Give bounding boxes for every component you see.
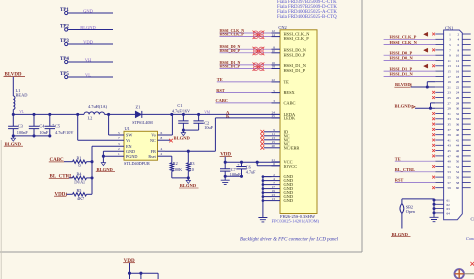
svg-text:U1: U1 xyxy=(125,126,130,131)
svg-text:40: 40 xyxy=(456,133,460,137)
node VL rail xyxy=(13,113,84,115)
U1 pin 8 NC stub no-connect xyxy=(158,139,171,141)
sheet section border vertical xyxy=(361,0,363,252)
wire VDD rail xyxy=(224,157,226,162)
svg-text:CABC: CABC xyxy=(50,158,65,163)
svg-text:33: 33 xyxy=(448,117,452,121)
sheet left border xyxy=(0,140,2,279)
common-mode filter (DNP) on HSSI_D1_N/HSSI_D1_P xyxy=(253,63,258,67)
wire TE xyxy=(217,81,272,83)
wire VM rail xyxy=(142,113,280,115)
wire R5 to EN xyxy=(87,193,93,195)
svg-text:42: 42 xyxy=(456,138,460,142)
CN2 pin 9 ID xyxy=(272,131,281,133)
CN2 pin 15 NC xyxy=(272,143,281,145)
wire BLGND xyxy=(415,107,435,109)
svg-text:6: 6 xyxy=(161,131,163,135)
wire HSSI_D0_N xyxy=(384,60,436,62)
svg-text:52: 52 xyxy=(456,165,460,169)
common-mode filter (DNP) on HSSI_CLK_N/HSSI_CLK_P xyxy=(253,31,258,35)
svg-text:BLGND: BLGND xyxy=(392,232,409,237)
svg-text:BLGND: BLGND xyxy=(395,103,412,108)
sheet section border horizontal xyxy=(0,251,362,253)
ground (VDD caps) xyxy=(224,176,226,180)
svg-text:C3: C3 xyxy=(18,124,23,129)
svg-text:57: 57 xyxy=(448,181,452,185)
svg-text:14: 14 xyxy=(456,64,460,68)
svg-text:4K7: 4K7 xyxy=(77,196,84,201)
svg-text:VDD: VDD xyxy=(83,39,93,44)
svg-text:HSSI_CLK_P: HSSI_CLK_P xyxy=(220,32,245,37)
CN2 pin 16 HSSI_D1_N xyxy=(272,64,281,66)
svg-text:2: 2 xyxy=(161,152,163,156)
svg-text:27: 27 xyxy=(448,101,452,105)
wire R1 to EN xyxy=(87,161,93,163)
svg-text:43: 43 xyxy=(448,144,452,148)
wire HSSI_D1_P xyxy=(384,70,436,72)
svg-text:HSSI_D0_P: HSSI_D0_P xyxy=(220,48,241,53)
solder bridge SB2 Open xyxy=(401,199,403,204)
wire HSSI_D1_N xyxy=(220,64,272,66)
wire to fiducial xyxy=(464,273,474,275)
wire R2 R3 ground join xyxy=(172,177,189,179)
svg-text:VH: VH xyxy=(85,57,92,62)
svg-text:55: 55 xyxy=(448,176,452,180)
svg-text:3: 3 xyxy=(118,142,120,146)
svg-text:RESX: RESX xyxy=(284,90,296,95)
wire BLVDD xyxy=(411,86,435,88)
svg-text:14: 14 xyxy=(272,33,276,37)
wire HSSI_CLK_N xyxy=(220,32,272,34)
svg-text:RST: RST xyxy=(216,88,225,93)
svg-text:49: 49 xyxy=(448,160,452,164)
svg-text:17: 17 xyxy=(448,75,452,79)
svg-text:TE: TE xyxy=(217,77,223,82)
wire cap ground rail xyxy=(13,135,50,137)
svg-text:4: 4 xyxy=(161,147,163,151)
U1 pin 6 Vo stub xyxy=(158,134,173,136)
wire HSSI_CLK_N xyxy=(384,44,436,46)
svg-text:Open: Open xyxy=(406,209,416,214)
CN2 pin 3 CABC xyxy=(272,102,281,104)
svg-text:0: 0 xyxy=(79,163,81,168)
svg-text:4.7uF/16V: 4.7uF/16V xyxy=(172,108,190,113)
svg-text:K: K xyxy=(226,114,230,119)
wire Vo to rail xyxy=(171,114,173,135)
svg-text:10: 10 xyxy=(190,167,194,172)
U1 pin 5 SW stub xyxy=(109,134,124,136)
svg-text:50: 50 xyxy=(456,160,460,164)
svg-text:12: 12 xyxy=(456,59,460,63)
wire BL_CTRL to R4 xyxy=(69,177,73,179)
wire HSSI_D1_P xyxy=(220,68,272,70)
svg-text:24: 24 xyxy=(456,91,460,95)
wire GND down to PGND xyxy=(102,151,104,162)
svg-text:4.7uH(1A): 4.7uH(1A) xyxy=(88,104,108,109)
svg-text:VM: VM xyxy=(204,111,211,115)
wire IOVCC branch xyxy=(256,162,258,166)
U1 pin 3 EN stub xyxy=(92,145,124,147)
svg-text:18: 18 xyxy=(272,65,276,69)
svg-text:29: 29 xyxy=(448,107,452,111)
svg-text:Z1: Z1 xyxy=(136,104,141,109)
svg-text:35: 35 xyxy=(448,123,452,127)
svg-text:15: 15 xyxy=(448,70,452,74)
svg-text:Conn: Conn xyxy=(466,236,474,241)
svg-text:22: 22 xyxy=(272,78,276,82)
svg-text:16: 16 xyxy=(456,70,460,74)
svg-text:VDD: VDD xyxy=(55,192,66,197)
wire HSSI_D0_P xyxy=(384,54,436,56)
capacitor C2 10uF xyxy=(198,114,200,121)
svg-text:23: 23 xyxy=(448,91,452,95)
U1 pin 2 Rset stub xyxy=(158,155,172,157)
CN1 pins 61-64 xyxy=(434,199,444,201)
CN2 pin 2 GND xyxy=(272,176,281,178)
svg-text:36: 36 xyxy=(456,123,460,127)
svg-text:TE: TE xyxy=(284,80,290,85)
svg-text:NC: NC xyxy=(150,138,156,143)
svg-text:60: 60 xyxy=(456,186,460,190)
svg-text:STPS1L40M: STPS1L40M xyxy=(132,121,153,125)
wire C6 C7 ground join xyxy=(225,175,241,177)
CN2 pin 13 NC xyxy=(272,139,281,141)
svg-text:TE: TE xyxy=(395,156,401,161)
svg-text:HSSI_D1_N: HSSI_D1_N xyxy=(390,72,414,77)
CN2 pin 20 NC/ERR xyxy=(272,147,281,149)
wire HSSI_D0_N xyxy=(220,48,272,50)
svg-text:R2: R2 xyxy=(173,161,178,166)
CN2 pin 22 TE xyxy=(272,81,281,83)
U1 pin 4 FB stub xyxy=(158,150,166,152)
svg-text:28: 28 xyxy=(456,101,460,105)
svg-text:BL_CTRL: BL_CTRL xyxy=(50,175,74,180)
wire K net vertical xyxy=(214,118,216,151)
svg-text:4.7uF: 4.7uF xyxy=(246,170,256,175)
svg-text:GND: GND xyxy=(83,8,93,13)
svg-text:C5: C5 xyxy=(55,124,60,129)
svg-text:30: 30 xyxy=(456,107,460,111)
svg-text:Backlight driver & FFC connect: Backlight driver & FFC connector for LCD… xyxy=(240,238,339,243)
svg-text:44: 44 xyxy=(456,144,460,148)
svg-text:38: 38 xyxy=(456,128,460,132)
svg-text:HSSI_D1_P: HSSI_D1_P xyxy=(284,68,306,73)
CN2 pin 23 GND xyxy=(272,196,281,198)
svg-text:10uF: 10uF xyxy=(204,125,213,130)
svg-text:IOVCC: IOVCC xyxy=(284,164,298,169)
svg-text:47: 47 xyxy=(448,154,452,158)
svg-text:54: 54 xyxy=(456,170,460,174)
wire BLVDD to L1 xyxy=(12,77,14,96)
capacitor C6 4.7uF xyxy=(241,162,243,166)
svg-text:21: 21 xyxy=(448,85,452,89)
ground flag BLGND (input caps) xyxy=(12,136,14,138)
wire SW to rail xyxy=(108,114,110,135)
capacitor C5 4.7uF/10V xyxy=(45,126,55,128)
capacitor C4 10nF xyxy=(29,126,39,128)
wire LEDK row xyxy=(215,117,280,119)
capacitor C3 100nF xyxy=(8,126,18,128)
CN2 pin 17 GND xyxy=(272,188,281,190)
svg-text:NC/ERR: NC/ERR xyxy=(284,145,300,150)
wire TE xyxy=(395,160,436,162)
svg-text:HSSI_D0_P: HSSI_D0_P xyxy=(284,52,306,57)
svg-text:13: 13 xyxy=(272,197,276,201)
wire C5 branch xyxy=(49,114,51,126)
svg-text:59: 59 xyxy=(448,186,452,190)
svg-text:Rset: Rset xyxy=(148,154,156,159)
wire HSSI_CLK_P xyxy=(384,38,436,40)
wire Rset to R2 xyxy=(171,156,173,163)
edge mark xyxy=(470,262,474,266)
svg-text:BLGND: BLGND xyxy=(80,25,96,30)
svg-text:100K: 100K xyxy=(173,167,182,172)
wire SB2 to BLGND xyxy=(401,214,403,229)
CN2 pin 24 LEDA xyxy=(272,113,281,115)
diff-pair marker xyxy=(424,48,428,52)
wire HSSI_D1_N xyxy=(384,75,436,77)
svg-text:HSSI_CLK_P: HSSI_CLK_P xyxy=(284,36,310,41)
svg-text:BLGND: BLGND xyxy=(5,141,22,146)
svg-text:BLGND: BLGND xyxy=(97,167,114,172)
svg-text:VL: VL xyxy=(19,110,24,114)
wire pins 61-64 bus xyxy=(433,199,435,213)
CN2 pin 14 HSSI_CLK_P xyxy=(272,36,281,38)
svg-text:20: 20 xyxy=(456,80,460,84)
svg-text:48: 48 xyxy=(456,154,460,158)
svg-text:32: 32 xyxy=(456,112,460,116)
svg-text:CABC: CABC xyxy=(284,101,296,106)
svg-text:25: 25 xyxy=(448,96,452,100)
wire RST xyxy=(216,92,271,94)
CN2 pin 21 VCC xyxy=(272,161,281,163)
svg-text:BL_CTRL: BL_CTRL xyxy=(395,167,415,172)
wire VDD bottom xyxy=(129,263,131,273)
svg-text:34: 34 xyxy=(456,117,460,121)
svg-text:19: 19 xyxy=(448,80,452,84)
svg-text:BLGND: BLGND xyxy=(174,135,191,140)
CN2 pin 19 GND xyxy=(272,192,281,194)
svg-text:[N/A]: [N/A] xyxy=(75,180,86,185)
wire FB net xyxy=(165,150,215,152)
svg-text:58: 58 xyxy=(456,181,460,185)
wire BL_CTRL xyxy=(395,171,436,173)
svg-text:5: 5 xyxy=(118,131,120,135)
svg-text:46: 46 xyxy=(456,149,460,153)
svg-text:R3: R3 xyxy=(190,161,195,166)
svg-text:3: 3 xyxy=(273,99,275,103)
CN2 pin 18 HSSI_D1_P xyxy=(272,68,281,70)
ground flag BLGND (output caps) xyxy=(182,130,184,133)
svg-text:FPC03025-14201(ATOM): FPC03025-14201(ATOM) xyxy=(272,219,320,224)
svg-text:CABC: CABC xyxy=(216,98,228,103)
common-mode filter (DNP) on HSSI_D0_N/HSSI_D0_P xyxy=(253,47,258,51)
svg-text:13: 13 xyxy=(448,64,452,68)
svg-text:HSSI_CLK_N: HSSI_CLK_N xyxy=(390,40,418,45)
svg-text:7: 7 xyxy=(118,136,120,140)
svg-text:C4: C4 xyxy=(39,124,45,129)
CN2 pin 11 NC xyxy=(272,135,281,137)
svg-text:BLVDD: BLVDD xyxy=(395,82,411,87)
U1 pin 7 Vi stub xyxy=(78,139,124,141)
wire VDD to R5 xyxy=(67,193,73,195)
capacitor C7 100nF xyxy=(224,162,226,169)
wire HSSI_CLK_P xyxy=(220,36,272,38)
diff-pair marker xyxy=(424,32,428,36)
fiducial mark xyxy=(455,269,464,278)
svg-text:20: 20 xyxy=(272,144,276,148)
svg-text:37: 37 xyxy=(448,128,452,132)
svg-text:HSSI_D1_P: HSSI_D1_P xyxy=(220,64,241,69)
CN2 pin 5 RESX xyxy=(272,92,281,94)
diff-pair marker xyxy=(424,64,428,68)
ground flag BLGND (U1) xyxy=(101,163,105,166)
svg-text:18: 18 xyxy=(456,75,460,79)
svg-text:CN: CN xyxy=(471,217,474,222)
wire EN net vertical xyxy=(91,146,93,194)
svg-text:STLD40DPUR: STLD40DPUR xyxy=(124,161,150,166)
svg-text:RST: RST xyxy=(395,178,404,183)
CN2 pin 25 LEDK xyxy=(272,117,281,119)
svg-text:39: 39 xyxy=(448,133,452,137)
svg-text:BEAD: BEAD xyxy=(16,93,28,98)
wire R4 to EN xyxy=(87,177,93,179)
wire Vi to rail xyxy=(77,114,79,140)
wire output cap ground join xyxy=(183,129,198,131)
wire HSSI_D0_P xyxy=(220,52,272,54)
CN2 pin 10 HSSI_D0_P xyxy=(272,52,281,54)
svg-text:2: 2 xyxy=(118,147,120,151)
svg-text:LEDK: LEDK xyxy=(284,116,297,121)
svg-text:4.7uF/10V: 4.7uF/10V xyxy=(55,130,74,135)
svg-text:41: 41 xyxy=(448,138,452,142)
svg-text:31: 31 xyxy=(448,112,452,116)
CN2 pin 7 GND xyxy=(272,184,281,186)
ground (CN2 GND) xyxy=(258,218,267,222)
svg-text:53: 53 xyxy=(448,170,452,174)
U1 pin 1 PGND stub xyxy=(103,155,124,157)
svg-text:51: 51 xyxy=(448,165,452,169)
svg-text:HSSI_D1_P: HSSI_D1_P xyxy=(390,66,413,71)
svg-text:64: 64 xyxy=(447,211,451,215)
CN2 pin 13 GND xyxy=(272,200,281,202)
svg-text:Fiala FRD400B25025-B-CTQ: Fiala FRD400B25025-B-CTQ xyxy=(277,15,337,20)
CN2 pin 12 HSSI_CLK_N xyxy=(272,32,281,34)
svg-text:BLGND: BLGND xyxy=(180,183,197,188)
svg-text:26: 26 xyxy=(456,96,460,100)
wire L1 to rail xyxy=(12,110,14,115)
svg-text:1: 1 xyxy=(118,152,120,156)
svg-text:22: 22 xyxy=(456,85,460,89)
CN2 pin 6 IOVCC xyxy=(272,165,281,167)
svg-text:10: 10 xyxy=(456,54,460,58)
ground flag BLGND (R2 R3) xyxy=(187,178,189,181)
svg-text:PGND: PGND xyxy=(126,154,137,159)
svg-text:L2: L2 xyxy=(88,115,93,120)
wire C4 branch xyxy=(33,114,35,126)
svg-text:VL: VL xyxy=(85,72,91,77)
wire L2 to diode xyxy=(105,113,136,115)
svg-text:HSSI_D0_P: HSSI_D0_P xyxy=(390,50,413,55)
svg-text:6: 6 xyxy=(273,162,275,166)
svg-text:100nF: 100nF xyxy=(17,130,29,135)
svg-text:GND: GND xyxy=(284,198,294,203)
svg-text:8: 8 xyxy=(161,136,163,140)
svg-text:HSSI_D0_N: HSSI_D0_N xyxy=(390,56,414,61)
svg-text:10nF: 10nF xyxy=(39,130,48,135)
U1 pin 2 GND stub xyxy=(103,150,124,152)
svg-text:5: 5 xyxy=(273,89,275,93)
wire CABC xyxy=(216,102,272,104)
CN2 GND bus xyxy=(263,176,272,178)
wire RST xyxy=(395,181,436,183)
ground (CN1 shield) xyxy=(433,213,435,217)
svg-text:25: 25 xyxy=(272,114,276,118)
resistor R3 10 xyxy=(187,151,189,163)
svg-text:HSSI_CLK_P: HSSI_CLK_P xyxy=(390,35,417,40)
wire C3 branch xyxy=(12,114,14,126)
CN2 pin 4 GND xyxy=(272,180,281,182)
svg-text:56: 56 xyxy=(456,176,460,180)
no-connect marks on CN2 ID/NC pins xyxy=(260,130,264,134)
CN2 pin 8 HSSI_D0_N xyxy=(272,48,281,50)
svg-text:10: 10 xyxy=(272,49,276,53)
wire CABC to R1 xyxy=(64,161,73,163)
svg-text:45: 45 xyxy=(448,149,452,153)
svg-text:11: 11 xyxy=(448,59,452,63)
